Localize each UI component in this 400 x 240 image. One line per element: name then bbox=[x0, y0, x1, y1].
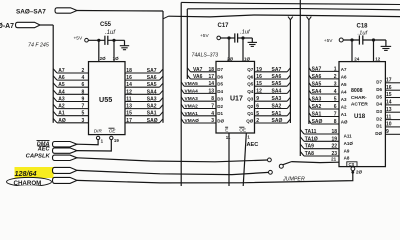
node TA11 tap into U18 bbox=[300, 130, 304, 135]
wire cap C18 to ground bbox=[363, 39, 386, 41]
svg-text:DIR: DIR bbox=[94, 129, 103, 134]
node A6 tap into U55 bbox=[53, 76, 57, 80]
wire CHAROM to U18 CS pin 20 bbox=[77, 171, 353, 183]
svg-text:3: 3 bbox=[211, 118, 214, 124]
svg-text:A1: A1 bbox=[341, 112, 347, 117]
svg-text:13: 13 bbox=[126, 104, 132, 110]
node VMA1 tap into U17 bbox=[181, 112, 184, 116]
svg-text:2: 2 bbox=[334, 74, 337, 80]
svg-text:SA1: SA1 bbox=[312, 112, 322, 118]
svg-text:16: 16 bbox=[256, 74, 262, 80]
node SA6 tap into U18 bbox=[309, 75, 312, 79]
wire U17 pin 5 to SA bus bbox=[255, 115, 288, 117]
svg-text:2: 2 bbox=[256, 118, 259, 124]
highlight 128/64 bbox=[15, 167, 54, 178]
svg-text:VA7: VA7 bbox=[193, 67, 203, 73]
svg-text:SA2: SA2 bbox=[272, 104, 282, 110]
node TA8 tap into U18 bbox=[300, 152, 304, 157]
svg-text:2Ø: 2Ø bbox=[100, 56, 107, 61]
bus SA vertical at U18 bbox=[308, 20, 310, 124]
svg-text:1Ø: 1Ø bbox=[113, 56, 120, 61]
wire AEC to U55 OE bbox=[77, 140, 111, 151]
node A0 tap into U55 bbox=[53, 119, 57, 123]
svg-text:1: 1 bbox=[334, 66, 337, 72]
wire U55 pin 14 to SA5 bbox=[125, 86, 160, 88]
wire U55 pin 15 to SA1 bbox=[125, 115, 160, 117]
svg-text:A6: A6 bbox=[341, 74, 347, 79]
bus VMA vertical bbox=[180, 3, 182, 187]
svg-text:CHAROM: CHAROM bbox=[14, 180, 42, 186]
svg-text:Q1: Q1 bbox=[247, 111, 254, 116]
svg-text:D1: D1 bbox=[217, 111, 223, 116]
svg-text:22: 22 bbox=[331, 144, 337, 150]
svg-text:128/64: 128/64 bbox=[15, 169, 37, 178]
U55 OE pin 19 bubble bbox=[110, 136, 113, 139]
character ROM U18 bbox=[339, 62, 385, 167]
svg-text:OE: OE bbox=[109, 129, 117, 134]
svg-text:A11: A11 bbox=[344, 134, 353, 139]
svg-text:SA3: SA3 bbox=[272, 96, 282, 102]
svg-text:VMA2: VMA2 bbox=[185, 104, 199, 110]
svg-text:AØ: AØ bbox=[341, 120, 348, 125]
node A7 tap into U55 bbox=[53, 69, 57, 73]
svg-text:DØ: DØ bbox=[217, 118, 224, 123]
svg-text:SA5: SA5 bbox=[312, 81, 322, 87]
svg-text:8: 8 bbox=[211, 96, 214, 102]
svg-text:ACTER: ACTER bbox=[351, 101, 368, 107]
svg-text:A1Ø: A1Ø bbox=[344, 141, 354, 146]
wire U55 pin 11 to SA3 bbox=[125, 101, 160, 103]
wire CAPSLK to jumper terminal bbox=[77, 158, 268, 162]
svg-text:DØ: DØ bbox=[375, 131, 382, 136]
wire U55 pin 17 to SA0 bbox=[125, 122, 160, 124]
wire A0-A7 to A bus bbox=[40, 24, 53, 26]
svg-text:2Ø: 2Ø bbox=[356, 170, 363, 175]
svg-text:A1: A1 bbox=[58, 111, 65, 117]
connector CAPSLK bbox=[53, 155, 78, 160]
svg-text:6: 6 bbox=[256, 104, 259, 110]
svg-text:U17: U17 bbox=[230, 95, 243, 102]
svg-text:7: 7 bbox=[334, 112, 337, 118]
node A3 tap into U55 bbox=[53, 97, 57, 101]
svg-text:A7: A7 bbox=[58, 68, 65, 74]
svg-text:Q2: Q2 bbox=[247, 104, 254, 109]
svg-text:5: 5 bbox=[82, 111, 85, 117]
svg-text:SA4: SA4 bbox=[272, 88, 282, 94]
ground U55 bbox=[120, 45, 129, 47]
svg-text:7: 7 bbox=[211, 104, 214, 110]
svg-text:15: 15 bbox=[386, 92, 392, 98]
svg-text:QØ: QØ bbox=[246, 118, 254, 123]
bus VA/SA vertical bbox=[186, 9, 188, 79]
svg-text:SAØ: SAØ bbox=[312, 119, 323, 125]
svg-text:SA5: SA5 bbox=[147, 82, 157, 88]
svg-text:6: 6 bbox=[334, 104, 337, 110]
wire DMA to U55 DIR bbox=[77, 140, 98, 145]
svg-text:D4: D4 bbox=[217, 89, 223, 94]
svg-text:SAØ: SAØ bbox=[147, 118, 158, 124]
svg-text:1Ø: 1Ø bbox=[244, 56, 251, 61]
node A4 tap into U55 bbox=[53, 90, 57, 94]
svg-text:SAØ: SAØ bbox=[272, 118, 283, 124]
node SA3 tap into U18 bbox=[309, 98, 312, 102]
svg-text:6: 6 bbox=[82, 82, 85, 88]
svg-text:AEC: AEC bbox=[37, 147, 51, 153]
svg-text:VA6: VA6 bbox=[193, 74, 203, 80]
svg-text:A5: A5 bbox=[58, 82, 65, 88]
connector SA0-SA7 bbox=[55, 8, 77, 13]
svg-text:SA7: SA7 bbox=[147, 68, 157, 74]
svg-text:D2: D2 bbox=[376, 116, 382, 121]
svg-text:CHAR-: CHAR- bbox=[351, 95, 367, 101]
node SA2 tap into U18 bbox=[309, 105, 312, 109]
U18 CS pin 20 bbox=[347, 162, 357, 167]
svg-text:74 F 245: 74 F 245 bbox=[28, 43, 49, 49]
svg-text:SA1: SA1 bbox=[147, 111, 157, 117]
node VA7 tap into U17 bbox=[187, 68, 190, 72]
wire SA line branch to right bbox=[163, 16, 169, 19]
node SA4 tap into U18 bbox=[309, 90, 312, 94]
svg-text:D7: D7 bbox=[376, 80, 382, 85]
svg-text:74ALS–373: 74ALS–373 bbox=[192, 52, 219, 58]
node TA9 tap into U18 bbox=[300, 144, 304, 149]
svg-text:9: 9 bbox=[256, 96, 259, 102]
svg-text:18: 18 bbox=[208, 67, 214, 73]
svg-text:13: 13 bbox=[208, 88, 214, 94]
svg-text:15: 15 bbox=[126, 111, 132, 117]
svg-text:7: 7 bbox=[82, 104, 85, 110]
wire +5V to U17 pin 20 bbox=[221, 37, 235, 39]
svg-text:19: 19 bbox=[114, 138, 119, 143]
svg-text:14: 14 bbox=[126, 82, 132, 88]
svg-text:SA7: SA7 bbox=[312, 66, 322, 72]
svg-text:A9: A9 bbox=[344, 148, 350, 153]
svg-text:12: 12 bbox=[256, 88, 262, 94]
svg-text:A2: A2 bbox=[58, 104, 65, 110]
svg-text:D7: D7 bbox=[217, 67, 223, 72]
wire U17 pin 9 to SA bus bbox=[255, 100, 288, 102]
svg-text:+5V: +5V bbox=[74, 35, 83, 41]
node VMA4 tap into U17 bbox=[181, 89, 184, 93]
svg-text:A4: A4 bbox=[58, 89, 65, 95]
svg-text:A2: A2 bbox=[341, 105, 347, 110]
bus SA collector vertical at U55 bbox=[162, 11, 164, 123]
svg-text:SA2: SA2 bbox=[147, 104, 157, 110]
svg-text:5: 5 bbox=[256, 111, 259, 117]
svg-text:SA2: SA2 bbox=[312, 104, 322, 110]
svg-text:A6: A6 bbox=[58, 75, 65, 81]
node VMA0 tap into U17 bbox=[181, 119, 184, 123]
transceiver U55 74F245 bbox=[89, 62, 126, 135]
wire U55 pin 12 to SA4 bbox=[125, 93, 160, 95]
svg-text:C55: C55 bbox=[100, 22, 112, 28]
svg-text:17: 17 bbox=[126, 118, 132, 124]
node SA7 tap into U18 bbox=[309, 68, 312, 72]
svg-text:D6: D6 bbox=[217, 74, 223, 79]
svg-text:Q7: Q7 bbox=[247, 67, 254, 72]
svg-text:VMA4: VMA4 bbox=[185, 88, 199, 94]
svg-text:U55: U55 bbox=[99, 95, 112, 104]
bus TA vertical from top bbox=[299, 0, 301, 156]
svg-text:19: 19 bbox=[331, 136, 337, 142]
svg-text:12: 12 bbox=[126, 89, 132, 95]
wire U17 pin 12 to SA bus bbox=[255, 92, 288, 94]
wire U17 pin 15 to SA bus bbox=[255, 85, 288, 87]
svg-text:14: 14 bbox=[208, 81, 214, 87]
svg-text:SA6: SA6 bbox=[312, 74, 322, 80]
wire U17 pin 20 bbox=[228, 38, 230, 61]
wire U17 pin 6 to SA bus bbox=[255, 108, 288, 110]
latch U17 74ALS373 bbox=[216, 61, 255, 133]
svg-text:13: 13 bbox=[386, 107, 392, 113]
svg-text:U18: U18 bbox=[354, 113, 366, 120]
U55 DIR pin 1 bubble bbox=[96, 136, 99, 139]
svg-text:VMA3: VMA3 bbox=[185, 96, 199, 102]
jumper switch bbox=[279, 164, 283, 168]
svg-text:11: 11 bbox=[386, 114, 392, 120]
svg-text:D4: D4 bbox=[376, 102, 382, 107]
svg-text:15: 15 bbox=[256, 81, 262, 87]
svg-text:5: 5 bbox=[334, 97, 337, 103]
svg-text:A8: A8 bbox=[344, 156, 350, 161]
svg-text:SA3: SA3 bbox=[312, 97, 322, 103]
wire +5V to pin 20 bbox=[88, 39, 105, 41]
jumper terminal 1 bbox=[268, 158, 272, 162]
connector A0-A7 bbox=[16, 22, 41, 27]
bus top line T1 bbox=[181, 2, 400, 4]
svg-text:9: 9 bbox=[386, 129, 389, 135]
wire +5V to U18 pin 24 bbox=[343, 39, 359, 41]
svg-text:4: 4 bbox=[211, 111, 214, 117]
svg-text:SA7: SA7 bbox=[272, 67, 282, 73]
svg-text:D5: D5 bbox=[376, 94, 382, 99]
svg-text:12: 12 bbox=[375, 56, 381, 61]
wire U17 pin 2 to SA bus bbox=[255, 122, 288, 124]
node VMA3 tap into U17 bbox=[181, 97, 184, 101]
svg-text:TA9: TA9 bbox=[305, 144, 314, 150]
svg-text:A4: A4 bbox=[341, 90, 347, 95]
svg-text:18: 18 bbox=[331, 129, 337, 135]
svg-text:D1: D1 bbox=[376, 124, 382, 129]
connector AEC bbox=[53, 148, 78, 153]
svg-text:VMA1: VMA1 bbox=[185, 111, 199, 117]
svg-text:11: 11 bbox=[126, 97, 132, 103]
svg-text:10: 10 bbox=[386, 122, 392, 128]
wire U55 pin 13 to SA2 bbox=[125, 108, 160, 110]
svg-text:D6: D6 bbox=[376, 87, 382, 92]
svg-text:8008: 8008 bbox=[351, 88, 363, 94]
svg-text:A3: A3 bbox=[341, 97, 347, 102]
wire cap C55 to ground bbox=[108, 39, 125, 41]
node VA6 tap into U17 bbox=[187, 75, 190, 79]
connector 128/64 bbox=[53, 167, 78, 173]
wire U55 pin 16 to SA6 bbox=[125, 79, 160, 81]
svg-text:Q3: Q3 bbox=[247, 97, 254, 102]
svg-text:SA4: SA4 bbox=[147, 89, 157, 95]
svg-text:SAØ–SA7: SAØ–SA7 bbox=[16, 9, 46, 16]
svg-text:TA1Ø: TA1Ø bbox=[305, 136, 318, 142]
svg-text:8: 8 bbox=[82, 89, 85, 95]
svg-text:SA6: SA6 bbox=[147, 75, 157, 81]
svg-text:19: 19 bbox=[256, 67, 262, 73]
wire U17 pin 16 to SA bus bbox=[255, 78, 288, 80]
svg-text:SA6: SA6 bbox=[272, 74, 282, 80]
node SA5 tap into U18 bbox=[309, 83, 312, 87]
bus top line T2 bbox=[187, 9, 400, 10]
svg-text:8: 8 bbox=[334, 119, 337, 125]
wire jumper to U18 pin 21 bbox=[292, 162, 340, 163]
svg-text:11: 11 bbox=[226, 135, 231, 140]
svg-text:SA5: SA5 bbox=[272, 81, 282, 87]
svg-text:AEC: AEC bbox=[247, 142, 259, 148]
wire U17 pin 10 bbox=[242, 38, 244, 61]
connector CHAROM bbox=[53, 177, 78, 183]
svg-text:TA11: TA11 bbox=[305, 129, 317, 135]
node A2 tap into U55 bbox=[53, 104, 57, 108]
svg-text:A7: A7 bbox=[341, 67, 347, 72]
wire SA0-SA7 to bus bbox=[77, 10, 163, 13]
svg-text:Q5: Q5 bbox=[247, 82, 254, 87]
svg-text:9: 9 bbox=[82, 97, 85, 103]
svg-text:17: 17 bbox=[386, 78, 392, 84]
svg-text:24: 24 bbox=[354, 56, 360, 61]
wire U17 pin 1 (OE) bbox=[243, 133, 246, 186]
svg-text:SA3: SA3 bbox=[147, 97, 157, 103]
svg-text:D2: D2 bbox=[217, 104, 223, 109]
svg-text:3: 3 bbox=[334, 81, 337, 87]
svg-text:4: 4 bbox=[334, 89, 337, 95]
svg-text:2: 2 bbox=[82, 68, 85, 74]
jumper terminal 2 bbox=[269, 170, 273, 174]
wire U18 pin 24 bbox=[351, 40, 353, 62]
node A1 tap into U55 bbox=[53, 111, 57, 115]
node SA0 tap into U18 bbox=[309, 120, 312, 124]
svg-text:.1uf: .1uf bbox=[240, 29, 251, 35]
svg-text:CS: CS bbox=[349, 162, 355, 167]
svg-text:D3: D3 bbox=[217, 97, 223, 102]
svg-text:C18: C18 bbox=[357, 23, 369, 29]
svg-text:JUMPER: JUMPER bbox=[282, 177, 305, 183]
svg-text:D3: D3 bbox=[376, 109, 382, 114]
svg-text:4: 4 bbox=[82, 75, 85, 81]
node VMA5 tap into U17 bbox=[181, 82, 184, 86]
svg-text:A5: A5 bbox=[341, 82, 347, 87]
svg-text:Q4: Q4 bbox=[247, 89, 254, 94]
node VMA2 tap into U17 bbox=[181, 104, 184, 108]
svg-text:AØ: AØ bbox=[58, 118, 66, 124]
svg-text:+5V: +5V bbox=[200, 33, 209, 39]
svg-text:SA1: SA1 bbox=[272, 111, 282, 117]
wire U17 pin 19 to SA bus bbox=[255, 71, 288, 73]
wire U17 pin 11 (E) bbox=[228, 133, 230, 186]
svg-text:21: 21 bbox=[331, 157, 337, 162]
svg-text:E: E bbox=[225, 127, 228, 132]
svg-text:14: 14 bbox=[386, 100, 392, 106]
svg-text:16: 16 bbox=[386, 85, 392, 91]
svg-text:Ø-A7: Ø-A7 bbox=[0, 23, 14, 30]
wire 128/64 to jumper terminal bbox=[77, 170, 269, 174]
svg-text:23: 23 bbox=[331, 151, 337, 157]
svg-text:.1uf: .1uf bbox=[105, 30, 116, 36]
node SA1 tap into U18 bbox=[309, 113, 312, 117]
svg-text:C17: C17 bbox=[218, 23, 230, 29]
svg-text:TA8: TA8 bbox=[305, 151, 314, 157]
bus SA collector vertical bbox=[289, 20, 291, 123]
svg-text:Q6: Q6 bbox=[247, 74, 254, 79]
wire U18 pin 12 bbox=[373, 40, 375, 62]
svg-text:2Ø: 2Ø bbox=[227, 56, 234, 61]
svg-text:CAPSLK: CAPSLK bbox=[26, 153, 51, 159]
node TA10 tap into U18 bbox=[300, 137, 304, 142]
svg-text:VMA5: VMA5 bbox=[185, 81, 199, 87]
svg-text:16: 16 bbox=[126, 75, 132, 81]
connector DMA bbox=[53, 142, 78, 147]
svg-text:A3: A3 bbox=[58, 97, 65, 103]
svg-text:18: 18 bbox=[126, 68, 132, 74]
svg-text:D5: D5 bbox=[217, 82, 223, 87]
svg-text:SA4: SA4 bbox=[312, 89, 322, 95]
svg-text:OE: OE bbox=[239, 127, 246, 132]
svg-text:+5V: +5V bbox=[324, 38, 333, 44]
svg-text:17: 17 bbox=[208, 74, 214, 80]
wire U55 pin 20 bbox=[98, 40, 100, 61]
wire cap C17 to ground bbox=[238, 37, 253, 39]
ground U18 bbox=[381, 45, 392, 47]
ground U17 bbox=[248, 41, 257, 43]
wire U55 pin 10 bbox=[113, 40, 115, 61]
wire U55 pin 18 to SA7 bbox=[125, 72, 160, 74]
svg-text:VMAØ: VMAØ bbox=[185, 118, 200, 124]
svg-text:3: 3 bbox=[82, 118, 85, 124]
node A5 tap into U55 bbox=[53, 83, 57, 87]
bus A0-A7 vertical bbox=[52, 25, 54, 123]
